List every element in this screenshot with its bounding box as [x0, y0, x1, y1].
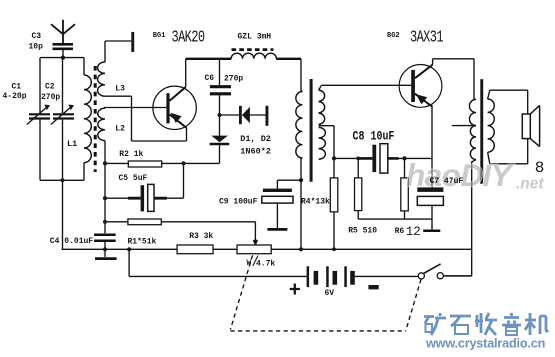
svg-text:L1: L1	[67, 139, 77, 149]
svg-text:R4*13k: R4*13k	[301, 198, 330, 207]
svg-text:R1*51k: R1*51k	[128, 237, 157, 246]
svg-text:3AX31: 3AX31	[410, 29, 444, 47]
svg-text:4-20p: 4-20p	[3, 92, 27, 101]
svg-text:L2: L2	[115, 124, 125, 133]
svg-text:D1, D2: D1, D2	[240, 134, 271, 144]
svg-text:www.crystalradio.cn: www.crystalradio.cn	[425, 337, 545, 351]
svg-text:.net: .net	[516, 176, 544, 193]
svg-text:270p: 270p	[41, 93, 60, 102]
svg-text:L3: L3	[115, 84, 125, 93]
svg-text:3AK20: 3AK20	[172, 29, 205, 47]
svg-text:haoDIY: haoDIY	[406, 157, 515, 193]
svg-text:0.01uF: 0.01uF	[64, 237, 93, 246]
svg-text:270p: 270p	[224, 74, 243, 83]
svg-text:C7 47uF: C7 47uF	[430, 177, 464, 186]
svg-text:C6: C6	[205, 74, 215, 83]
svg-text:12: 12	[406, 225, 421, 239]
svg-text:C1: C1	[12, 83, 22, 92]
svg-text:BG1: BG1	[153, 32, 166, 40]
svg-text:4.7k: 4.7k	[256, 260, 275, 269]
svg-text:C4: C4	[50, 237, 60, 246]
svg-text:GZL 3mH: GZL 3mH	[238, 33, 272, 42]
svg-text:R2 1k: R2 1k	[119, 150, 143, 159]
svg-text:8: 8	[535, 159, 545, 177]
svg-text:R5 510: R5 510	[348, 227, 377, 236]
svg-text:C5 5uF: C5 5uF	[119, 174, 148, 183]
svg-text:BG2: BG2	[387, 32, 400, 40]
svg-text:R6: R6	[395, 227, 405, 236]
svg-text:C3: C3	[32, 32, 42, 41]
svg-text:1N60*2: 1N60*2	[240, 146, 271, 156]
svg-text:6V: 6V	[325, 289, 335, 298]
svg-text:R3 3k: R3 3k	[189, 232, 213, 241]
svg-text:C8 10uF: C8 10uF	[353, 131, 395, 144]
svg-text:W: W	[247, 259, 252, 268]
svg-text:C2: C2	[45, 83, 55, 92]
svg-text:C9 100uF: C9 100uF	[219, 198, 258, 207]
svg-text:10p: 10p	[29, 42, 44, 51]
